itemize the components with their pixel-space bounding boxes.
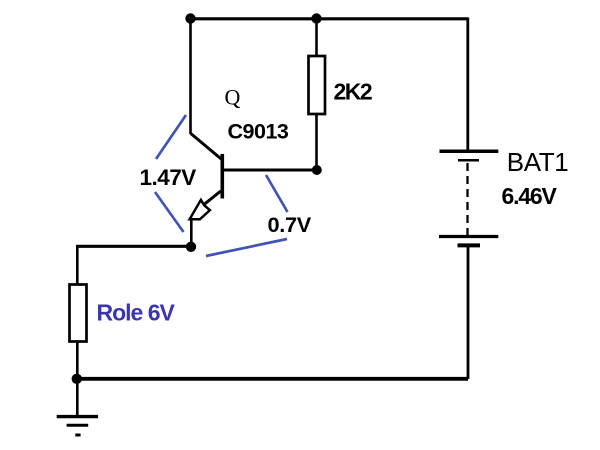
svg-text:Role 6V: Role 6V <box>97 300 176 326</box>
resistor Role <box>70 285 87 342</box>
resistor 2K2 <box>309 56 326 114</box>
wire battery bottom <box>467 247 470 379</box>
wire battery top <box>466 18 469 151</box>
wire top rail <box>189 17 468 20</box>
transistor Q1 base bar <box>221 154 225 199</box>
node base junction <box>312 165 322 175</box>
wire emitter to left <box>76 245 191 248</box>
svg-text:6.46V: 6.46V <box>502 183 558 209</box>
node ground junction <box>72 374 82 384</box>
wire 2K2 top <box>315 18 318 57</box>
annotation line from emitter node (bottom) <box>206 239 287 256</box>
transistor Q1 collector diagonal <box>191 134 222 160</box>
wire collector vertical <box>189 18 192 134</box>
node top-left junction <box>185 13 195 23</box>
ground <box>57 417 98 435</box>
annotation line from base wire <box>266 175 288 212</box>
wire base <box>223 169 314 172</box>
annotation line to collector <box>156 115 186 159</box>
wire 2K2 bottom <box>315 114 318 170</box>
wire left vertical upper <box>76 245 79 285</box>
svg-text:0.7V: 0.7V <box>268 212 312 237</box>
svg-text:2K2: 2K2 <box>334 79 372 105</box>
svg-text:1.47V: 1.47V <box>140 165 197 190</box>
battery BAT1 <box>439 151 498 245</box>
node emitter junction <box>186 242 196 252</box>
svg-text:BAT1: BAT1 <box>507 147 569 177</box>
annotation line to emitter node (left) <box>155 192 184 232</box>
wire bottom rail <box>76 377 468 381</box>
transistor Q1 emitter arrow <box>190 200 210 219</box>
wire ground stem <box>76 379 79 416</box>
wire emitter down <box>190 219 193 247</box>
svg-text:C9013: C9013 <box>228 120 289 144</box>
svg-text:Q: Q <box>225 85 241 110</box>
transistor Q1 emitter diagonal <box>204 191 221 205</box>
node top 2K2 junction <box>311 13 321 23</box>
wire left vertical lower <box>76 341 79 379</box>
